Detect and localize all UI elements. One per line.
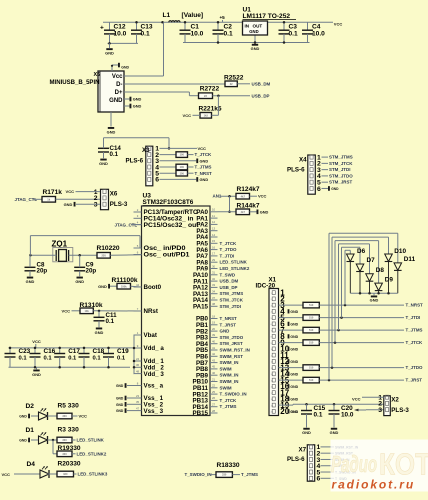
svg-text:STM_JRST: STM_JRST xyxy=(220,341,243,346)
svg-text:radiokot.ru: radiokot.ru xyxy=(332,477,416,491)
svg-text:GND: GND xyxy=(220,329,231,334)
svg-text:T_SWDIO_IN: T_SWDIO_IN xyxy=(185,472,212,477)
svg-text:GND: GND xyxy=(99,161,108,166)
svg-text:24: 24 xyxy=(136,357,140,361)
svg-text:D10: D10 xyxy=(394,248,406,255)
svg-text:28: 28 xyxy=(212,409,216,413)
svg-text:X2: X2 xyxy=(391,396,399,403)
svg-text:D11: D11 xyxy=(404,256,416,263)
svg-text:USB_DM: USB_DM xyxy=(252,82,271,87)
svg-text:D1: D1 xyxy=(26,427,35,434)
svg-text:PLS-6: PLS-6 xyxy=(287,456,305,463)
svg-text:PLS-6: PLS-6 xyxy=(287,166,305,173)
svg-text:PLS-3: PLS-3 xyxy=(391,407,409,414)
svg-text:510: 510 xyxy=(309,316,314,320)
svg-text:VCC: VCC xyxy=(66,189,75,194)
svg-text:26: 26 xyxy=(212,396,216,400)
svg-text:STM_JTMS: STM_JTMS xyxy=(329,155,353,160)
svg-text:MINIUSB_B_5PIN: MINIUSB_B_5PIN xyxy=(50,79,101,86)
svg-text:20p: 20p xyxy=(86,268,97,275)
svg-text:GND: GND xyxy=(64,202,73,207)
svg-text:VCC: VCC xyxy=(352,397,361,402)
svg-text:ZQ1: ZQ1 xyxy=(52,239,68,248)
svg-text:40: 40 xyxy=(212,340,216,344)
svg-text:GND: GND xyxy=(116,397,124,401)
svg-text:T_JRST: T_JRST xyxy=(406,378,423,383)
svg-text:SWIM: SWIM xyxy=(220,366,232,371)
svg-text:100k: 100k xyxy=(121,284,127,288)
svg-text:330: 330 xyxy=(63,472,68,476)
svg-text:18: 18 xyxy=(212,314,216,318)
svg-text:Vcc: Vcc xyxy=(112,74,123,80)
svg-text:C18: C18 xyxy=(93,348,105,355)
svg-text:Радио: Радио xyxy=(331,451,377,477)
svg-text:20p: 20p xyxy=(37,268,48,275)
svg-text:GND: GND xyxy=(290,335,298,339)
svg-text:37: 37 xyxy=(212,296,216,300)
svg-text:GND: GND xyxy=(121,65,129,69)
svg-text:D4: D4 xyxy=(27,461,36,468)
svg-text:T_JTMS: T_JTMS xyxy=(241,472,258,477)
svg-text:GND: GND xyxy=(105,51,114,56)
svg-text:VCC: VCC xyxy=(32,339,41,344)
svg-text:41: 41 xyxy=(212,346,216,350)
svg-text:LED_STLINK: LED_STLINK xyxy=(77,438,105,443)
svg-text:510: 510 xyxy=(309,328,314,332)
svg-text:22: 22 xyxy=(212,384,216,388)
svg-text:T_JTCK: T_JTCK xyxy=(195,152,213,157)
svg-text:Vdd_ 3: Vdd_ 3 xyxy=(144,371,165,378)
svg-text:10: 10 xyxy=(212,208,216,212)
svg-text:36: 36 xyxy=(136,363,140,367)
svg-text:510: 510 xyxy=(309,303,314,307)
svg-text:16: 16 xyxy=(212,245,216,249)
svg-text:GND: GND xyxy=(251,46,260,51)
svg-text:14: 14 xyxy=(212,233,216,237)
svg-text:100: 100 xyxy=(180,171,185,175)
svg-text:GND: GND xyxy=(331,187,339,191)
svg-text:R5 330: R5 330 xyxy=(58,403,80,410)
svg-text:27: 27 xyxy=(212,403,216,407)
svg-text:X7: X7 xyxy=(299,447,307,454)
svg-text:330: 330 xyxy=(222,473,227,477)
svg-text:T_JTDO: T_JTDO xyxy=(220,247,238,252)
svg-text:T_JTMS: T_JTMS xyxy=(220,404,237,409)
svg-text:0.1: 0.1 xyxy=(117,356,126,362)
svg-text:330: 330 xyxy=(62,438,67,442)
svg-text:23: 23 xyxy=(136,394,140,398)
svg-text:GND: GND xyxy=(19,439,27,443)
svg-text:0.1: 0.1 xyxy=(314,412,323,419)
svg-text:15: 15 xyxy=(212,239,216,243)
svg-text:VCC: VCC xyxy=(183,113,192,118)
svg-text:43: 43 xyxy=(212,358,216,362)
svg-text:STM_JTCK: STM_JTCK xyxy=(220,298,244,303)
svg-text:R144k7: R144k7 xyxy=(237,202,260,209)
svg-text:4k7: 4k7 xyxy=(241,210,246,214)
svg-text:Vss_ a: Vss_ a xyxy=(144,383,164,390)
svg-text:T_NRST: T_NRST xyxy=(220,316,238,321)
svg-text:GND: GND xyxy=(290,410,298,414)
svg-text:10.0: 10.0 xyxy=(312,30,325,37)
svg-text:GND: GND xyxy=(32,372,41,377)
svg-text:3: 3 xyxy=(94,202,98,209)
svg-text:SWIM_RST_IN: SWIM_RST_IN xyxy=(220,348,250,353)
svg-text:T_NRST: T_NRST xyxy=(195,171,213,176)
svg-text:VCC: VCC xyxy=(2,472,11,477)
svg-text:21: 21 xyxy=(212,377,216,381)
svg-text:510: 510 xyxy=(309,341,314,345)
svg-text:SWIM_IN: SWIM_IN xyxy=(220,360,239,365)
svg-text:IN: IN xyxy=(245,23,250,28)
svg-text:[Value]: [Value] xyxy=(182,12,204,19)
svg-text:LED_STLINK2: LED_STLINK2 xyxy=(220,266,250,271)
svg-text:45: 45 xyxy=(212,365,216,369)
svg-text:T_JTDI: T_JTDI xyxy=(220,253,235,258)
svg-text:LED_STLINK: LED_STLINK xyxy=(220,260,248,265)
svg-text:GND: GND xyxy=(133,97,142,102)
svg-text:T_JTDI: T_JTDI xyxy=(406,315,421,320)
svg-text:17: 17 xyxy=(212,252,216,256)
svg-text:NRst: NRst xyxy=(144,308,158,315)
svg-text:330: 330 xyxy=(62,452,67,456)
svg-text:6: 6 xyxy=(317,186,321,193)
svg-text:D6: D6 xyxy=(357,248,366,255)
svg-text:35: 35 xyxy=(136,400,140,404)
svg-text:STM_JTCK: STM_JTCK xyxy=(329,161,353,166)
svg-text:47: 47 xyxy=(136,406,140,410)
svg-text:D9: D9 xyxy=(385,276,394,283)
svg-text:LED_STLINK3: LED_STLINK3 xyxy=(78,472,108,477)
svg-text:USB_DP: USB_DP xyxy=(220,285,238,290)
svg-text:38: 38 xyxy=(212,302,216,306)
svg-text:SWIM_RST: SWIM_RST xyxy=(220,354,244,359)
svg-text:30: 30 xyxy=(212,264,216,268)
svg-text:GND: GND xyxy=(116,384,124,388)
svg-text:R3 330: R3 330 xyxy=(58,427,80,434)
svg-text:X3: X3 xyxy=(142,147,150,154)
svg-text:R2722: R2722 xyxy=(200,85,220,92)
svg-text:220: 220 xyxy=(101,253,106,257)
svg-text:T_JTCK: T_JTCK xyxy=(406,340,424,345)
svg-text:C16: C16 xyxy=(44,348,56,355)
svg-text:T_JTMS: T_JTMS xyxy=(406,328,423,333)
svg-text:VCC: VCC xyxy=(198,146,207,151)
svg-text:6: 6 xyxy=(155,177,159,184)
svg-text:R18330: R18330 xyxy=(217,462,240,469)
svg-text:46: 46 xyxy=(212,371,216,375)
svg-text:510: 510 xyxy=(309,378,314,382)
svg-text:PA15: PA15 xyxy=(193,304,209,311)
svg-text:GND: GND xyxy=(302,430,311,435)
svg-text:VCC: VCC xyxy=(334,22,343,27)
svg-text:GND: GND xyxy=(330,430,339,435)
svg-text:11: 11 xyxy=(212,214,215,218)
svg-text:SWIM_IN: SWIM_IN xyxy=(220,379,239,384)
svg-text:GND: GND xyxy=(107,130,116,135)
svg-text:1k5: 1k5 xyxy=(204,113,209,117)
svg-text:STM_JTDI: STM_JTDI xyxy=(329,167,350,172)
svg-text:VCC: VCC xyxy=(62,308,71,313)
svg-text:42: 42 xyxy=(212,352,216,356)
svg-text:GND: GND xyxy=(290,385,298,389)
svg-text:PB15: PB15 xyxy=(193,410,209,417)
svg-text:10.0: 10.0 xyxy=(114,30,127,37)
svg-text:STM_JTDO: STM_JTDO xyxy=(329,173,353,178)
svg-text:25: 25 xyxy=(212,390,216,394)
svg-text:T_SWD: T_SWD xyxy=(220,272,236,277)
svg-text:R20330: R20330 xyxy=(58,461,81,468)
svg-text:GND: GND xyxy=(75,279,84,284)
svg-text:SWIM_IN: SWIM_IN xyxy=(220,373,239,378)
svg-text:Boot0: Boot0 xyxy=(144,284,162,291)
svg-text:GND: GND xyxy=(26,279,35,284)
svg-text:510: 510 xyxy=(309,366,314,370)
svg-text:R124k7: R124k7 xyxy=(237,186,260,193)
svg-text:PLS-6: PLS-6 xyxy=(126,157,144,164)
svg-text:T_JRST: T_JRST xyxy=(220,322,237,327)
svg-text:Osc_ out/PD1: Osc_ out/PD1 xyxy=(144,252,191,259)
svg-text:0.1: 0.1 xyxy=(19,356,28,362)
svg-text:GND: GND xyxy=(116,409,124,413)
svg-text:10.0: 10.0 xyxy=(341,412,354,419)
svg-text:GND: GND xyxy=(260,209,269,214)
svg-text:GND: GND xyxy=(133,104,142,109)
svg-text:GND: GND xyxy=(290,322,298,326)
svg-text:GND: GND xyxy=(98,284,107,289)
svg-text:D8: D8 xyxy=(376,267,385,274)
svg-text:OUT: OUT xyxy=(253,23,263,28)
svg-text:39: 39 xyxy=(212,333,216,337)
svg-text:T_JTCK: T_JTCK xyxy=(220,241,238,246)
svg-text:32: 32 xyxy=(212,277,216,281)
svg-text:STM_JRST: STM_JRST xyxy=(329,180,352,185)
svg-text:LED_STLINK2: LED_STLINK2 xyxy=(77,452,107,457)
svg-text:Vdd_ a: Vdd_ a xyxy=(144,345,165,352)
svg-text:48: 48 xyxy=(136,369,140,373)
svg-text:GND: GND xyxy=(370,298,379,303)
svg-text:19: 19 xyxy=(212,321,216,325)
svg-text:SWIM: SWIM xyxy=(220,385,232,390)
svg-text:34: 34 xyxy=(212,290,216,294)
svg-text:0.1: 0.1 xyxy=(141,30,150,37)
svg-text:0.1: 0.1 xyxy=(110,151,119,158)
svg-text:10k: 10k xyxy=(84,309,89,313)
svg-text:VCC: VCC xyxy=(258,194,267,199)
svg-text:GND: GND xyxy=(95,330,104,335)
svg-text:100: 100 xyxy=(180,165,185,169)
svg-text:T_JTMS: T_JTMS xyxy=(195,165,212,170)
svg-text:D-: D- xyxy=(116,82,122,88)
svg-text:X5: X5 xyxy=(94,72,101,78)
svg-text:0.1: 0.1 xyxy=(289,30,298,37)
svg-text:R10220: R10220 xyxy=(97,245,120,252)
svg-text:STM_JTMS: STM_JTMS xyxy=(220,291,244,296)
svg-text:29: 29 xyxy=(212,258,216,262)
svg-text:GND: GND xyxy=(109,98,123,104)
svg-text:D2: D2 xyxy=(26,403,35,410)
svg-text:D7: D7 xyxy=(367,257,376,264)
svg-text:Vss_ 3: Vss_ 3 xyxy=(144,408,164,415)
svg-text:100: 100 xyxy=(180,153,185,157)
svg-text:GND: GND xyxy=(116,403,124,407)
svg-text:X6: X6 xyxy=(110,190,118,197)
svg-text:3: 3 xyxy=(378,407,382,414)
svg-text:GND: GND xyxy=(290,310,298,314)
svg-text:13: 13 xyxy=(212,227,216,231)
svg-text:R171k: R171k xyxy=(43,189,63,196)
svg-text:4k7: 4k7 xyxy=(241,194,246,198)
svg-text:T_JTDO: T_JTDO xyxy=(406,365,424,370)
svg-text:C23: C23 xyxy=(19,348,31,355)
svg-text:L1: L1 xyxy=(163,12,171,19)
svg-text:Vbat: Vbat xyxy=(144,332,157,339)
svg-text:20: 20 xyxy=(212,327,216,331)
svg-text:GND: GND xyxy=(290,397,298,401)
svg-text:GND: GND xyxy=(290,372,298,376)
svg-text:330: 330 xyxy=(62,414,67,418)
svg-text:КОТ: КОТ xyxy=(379,447,428,482)
svg-text:GND: GND xyxy=(290,347,298,351)
svg-text:0.1: 0.1 xyxy=(68,356,77,362)
svg-text:GND: GND xyxy=(200,158,209,163)
svg-text:GND: GND xyxy=(19,415,27,419)
svg-text:+5: +5 xyxy=(220,15,226,20)
svg-text:31: 31 xyxy=(212,271,216,275)
svg-text:33: 33 xyxy=(212,283,216,287)
svg-text:GND: GND xyxy=(249,29,258,34)
svg-text:0.1: 0.1 xyxy=(93,356,102,362)
svg-text:X4: X4 xyxy=(299,157,307,164)
svg-text:D+: D+ xyxy=(115,90,123,96)
svg-text:USB_DP: USB_DP xyxy=(252,93,270,98)
svg-text:PLS-3: PLS-3 xyxy=(110,201,128,208)
svg-text:6: 6 xyxy=(317,476,321,483)
svg-text:0.1: 0.1 xyxy=(224,30,233,37)
svg-text:+: + xyxy=(100,24,104,31)
svg-text:PC15/Osc32_ out: PC15/Osc32_ out xyxy=(144,222,199,229)
svg-text:T_NRST: T_NRST xyxy=(406,303,424,308)
svg-text:10.0: 10.0 xyxy=(191,30,204,37)
svg-text:C19: C19 xyxy=(117,348,129,355)
svg-text:GND: GND xyxy=(290,360,298,364)
svg-text:USB_DM: USB_DM xyxy=(220,279,239,284)
svg-text:T_JTCK: T_JTCK xyxy=(220,398,238,403)
svg-text:0.1: 0.1 xyxy=(106,318,115,325)
svg-text:0.1: 0.1 xyxy=(44,356,53,362)
svg-text:12: 12 xyxy=(212,220,216,224)
svg-text:STM_JTDI: STM_JTDI xyxy=(220,304,241,309)
svg-text:VCC: VCC xyxy=(79,414,88,419)
svg-text:GND: GND xyxy=(200,177,209,182)
svg-text:T_SWDIO_IN: T_SWDIO_IN xyxy=(220,392,247,397)
svg-text:STM_JTDO: STM_JTDO xyxy=(220,335,244,340)
